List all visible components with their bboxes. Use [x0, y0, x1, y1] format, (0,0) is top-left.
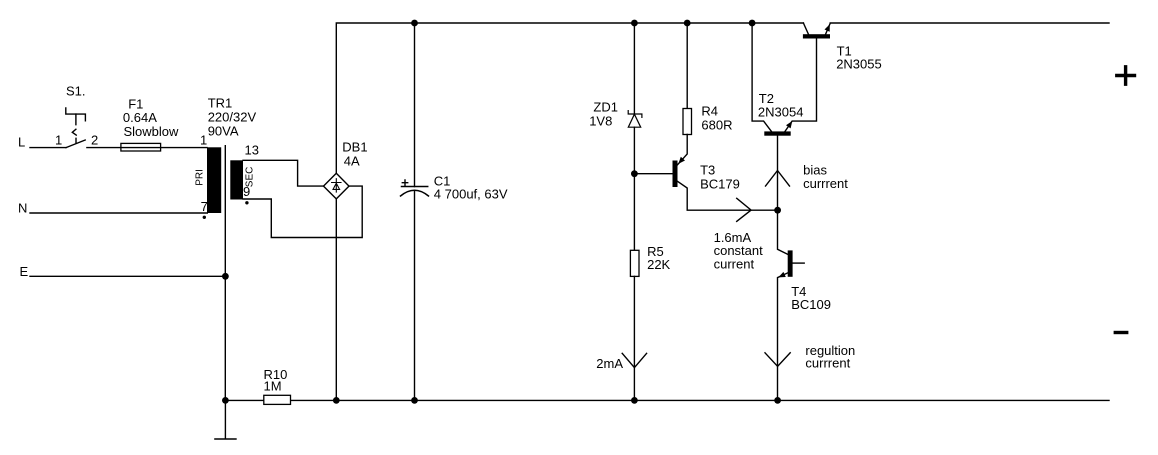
node T4 emitter rail junction: [774, 397, 781, 404]
svg-text:4A: 4A: [344, 154, 360, 169]
bridge rectifier DB1 diamond: [324, 173, 350, 199]
wire: T2 base down to 1.6mA node: [777, 136, 779, 211]
resistor R4 body: [683, 109, 692, 135]
node bridge bottom junction: [333, 397, 340, 404]
svg-text:13: 13: [245, 142, 259, 157]
svg-text:E: E: [20, 264, 29, 279]
transformer TR1 core line (earthed): [224, 146, 226, 401]
node bottom-left junction: [222, 397, 229, 404]
zener diode ZD1: [628, 111, 642, 128]
wire: E input to core line: [30, 275, 225, 277]
wire: bridge bottom to 0V rail: [335, 199, 337, 401]
svg-text:2N3054: 2N3054: [758, 105, 804, 120]
svg-text:90VA: 90VA: [208, 124, 239, 139]
ground: [215, 400, 236, 439]
arrow regulation current: [765, 353, 790, 367]
svg-text:ZD1: ZD1: [593, 99, 618, 114]
svg-text:BC109: BC109: [791, 297, 831, 312]
svg-text:2mA: 2mA: [596, 356, 623, 371]
wire: T1 collector diagonal: [803, 23, 808, 34]
capacitor C1 curved plate: [401, 190, 429, 196]
transformer TR1 primary winding: [207, 147, 221, 213]
arrow 2mA current: [622, 353, 646, 367]
svg-text:currrent: currrent: [805, 355, 850, 370]
minus output terminal: [1115, 331, 1126, 334]
node ZD1 top junction: [631, 20, 638, 27]
svg-text:currrent: currrent: [803, 176, 848, 191]
svg-text:220/32V: 220/32V: [208, 110, 257, 125]
svg-text:SEC: SEC: [245, 167, 256, 188]
node C1 bottom junction: [411, 397, 418, 404]
node R4 top junction: [684, 20, 691, 27]
wire: top raw DC rail from bridge to T1 collector: [336, 23, 803, 173]
transistor T3 base bar: [673, 161, 678, 188]
svg-text:7: 7: [201, 199, 208, 214]
wire: bottom 0V rail: [225, 399, 1109, 401]
node E junction: [222, 273, 229, 280]
capacitor C1 polarity plus: [402, 180, 407, 185]
svg-text:DB1: DB1: [342, 140, 367, 155]
wire: R5 to 0V rail: [633, 276, 635, 400]
wire: T4 emitter to 0V rail: [778, 273, 788, 401]
arrow bias current: [766, 171, 790, 187]
svg-text:T3: T3: [700, 163, 715, 178]
svg-text:22K: 22K: [647, 257, 670, 272]
node T2 collector rail junction: [749, 20, 756, 27]
wire: zener to R5: [633, 127, 635, 250]
wire: R4 top lead: [686, 23, 688, 109]
wire: T4 base stub: [793, 262, 805, 264]
svg-text:L: L: [18, 135, 25, 150]
secondary phase dot: [245, 201, 248, 204]
plus output terminal: [1117, 67, 1135, 84]
svg-text:680R: 680R: [701, 118, 732, 133]
primary phase dot: [203, 216, 206, 219]
svg-text:1: 1: [200, 133, 207, 148]
svg-text:S1.: S1.: [66, 83, 86, 98]
switch S1 actuator bracket: [66, 108, 86, 121]
resistor R10 body: [264, 395, 291, 404]
transistor T1 base bar: [803, 34, 830, 38]
wire: T2 emitter to T1 base: [785, 39, 817, 132]
svg-text:N: N: [18, 200, 27, 215]
fuse F1 body: [121, 143, 161, 151]
svg-text:BC179: BC179: [700, 177, 740, 192]
svg-text:PRI: PRI: [195, 169, 206, 186]
wire: C1 negative lead: [414, 192, 416, 401]
transistor T3 emitter arrow: [678, 157, 685, 164]
switch S1 blade: [66, 140, 85, 148]
wire: zener column top: [633, 23, 635, 114]
svg-text:4 700uf, 63V: 4 700uf, 63V: [434, 187, 508, 202]
wire: secondary pin 9 to bridge right: [243, 186, 362, 237]
svg-text:1M: 1M: [264, 378, 282, 393]
wire: T3 base from zener node: [634, 173, 672, 175]
node C1 top junction: [411, 20, 418, 27]
wire: T3 collector to 1.6mA node: [678, 181, 778, 210]
svg-text:current: current: [714, 256, 755, 271]
svg-text:1V8: 1V8: [589, 114, 612, 129]
wire: N input to transformer pin 7: [30, 212, 207, 214]
svg-text:2: 2: [91, 132, 98, 147]
node 1.6mA junction: [774, 207, 781, 214]
node R5 bottom junction: [631, 397, 638, 404]
bridge DB1 inner diode: [332, 179, 341, 192]
svg-text:TR1: TR1: [208, 96, 233, 111]
svg-text:F1: F1: [128, 96, 143, 111]
resistor R5 body: [630, 250, 639, 276]
wire: switch to fuse to transformer pin 1: [87, 147, 207, 149]
wire: T4 collector from 1.6mA node: [778, 210, 788, 254]
wire: T1 emitter diagonal: [826, 23, 831, 34]
wire: T2 collector from raw rail: [752, 23, 771, 131]
wire: R4 to T3 emitter: [678, 135, 688, 165]
arrow 1.6mA constant current: [737, 198, 751, 221]
wire: top regulated output rail from T1 emitter to + terminal: [830, 22, 1109, 24]
switch S1 actuator link with chevron: [72, 114, 76, 143]
wire: C1 positive lead: [414, 23, 416, 187]
node T3 base junction: [631, 170, 638, 177]
transistor T4 emitter arrow: [778, 272, 786, 278]
transistor T2 emitter arrow: [786, 121, 792, 128]
svg-text:Slowblow: Slowblow: [124, 124, 180, 139]
transistor T4 base bar: [788, 250, 793, 276]
wire: secondary pin 13 to bridge left: [243, 160, 324, 186]
svg-text:1: 1: [55, 132, 62, 147]
wire: L input lead: [30, 147, 66, 149]
svg-text:R4: R4: [701, 104, 718, 119]
transistor T2 base bar: [764, 131, 790, 135]
transistor T1 emitter arrow: [825, 24, 830, 32]
svg-text:2N3055: 2N3055: [836, 57, 882, 72]
transformer TR1 secondary winding: [230, 160, 243, 199]
capacitor C1 top plate: [402, 186, 428, 188]
svg-text:0.64A: 0.64A: [123, 110, 157, 125]
